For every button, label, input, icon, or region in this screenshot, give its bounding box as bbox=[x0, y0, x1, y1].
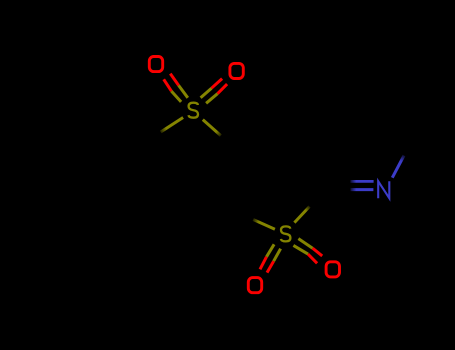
S2=O3 double bond line a bbox=[260, 244, 274, 269]
S1=O2 double bond line b bbox=[206, 84, 227, 103]
wire N-C6 half-bond up-right bbox=[392, 156, 404, 178]
S1=O2 double bond line a bbox=[201, 79, 223, 98]
wire S2-C2 half-bond up-right bbox=[294, 207, 309, 223]
atom S1 sulfone sulfur top bbox=[189, 103, 199, 118]
S1=O1 double bond line a bbox=[164, 79, 181, 102]
S1=O1 double bond line b bbox=[170, 74, 188, 98]
S2=O3 double bond line b bbox=[267, 249, 281, 273]
atom O2 sulfonyl oxygen top-right bbox=[230, 63, 243, 78]
atom S2 sulfone sulfur bottom bbox=[281, 226, 291, 241]
wire S2-CH3 half-bond left bbox=[253, 220, 275, 230]
atom O1 sulfonyl oxygen top-left bbox=[149, 57, 162, 72]
atom O3 sulfonyl oxygen bottom-left bbox=[248, 278, 261, 293]
wire C2=N main line (N half) bbox=[351, 188, 374, 191]
atom N pyridine nitrogen bbox=[378, 181, 389, 198]
atom O4 sulfonyl oxygen bottom-right bbox=[326, 262, 339, 277]
wire C2=N second line (N half) bbox=[350, 180, 373, 183]
S2=O4 double bond line b bbox=[293, 245, 317, 263]
wire S1-C(aryl) half-bond down-left bbox=[161, 118, 183, 133]
wire S1-C3 half-bond down-right bbox=[203, 120, 221, 136]
S2=O4 double bond line a bbox=[298, 239, 322, 256]
